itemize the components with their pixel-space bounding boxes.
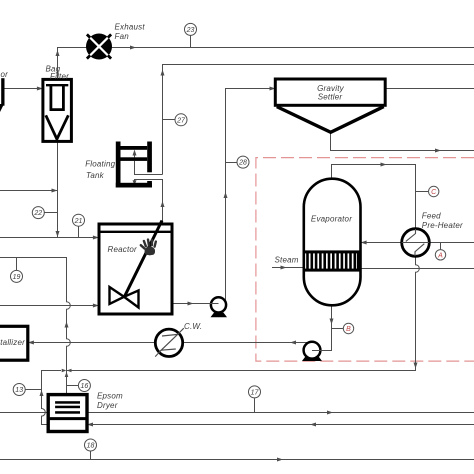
svg-text:Dryer: Dryer [97,401,118,410]
wire reactor feed upper [0,237,99,239]
svg-text:Evaporator: Evaporator [311,215,352,224]
arrow left on pump P2 discharge [290,341,296,345]
crystallizer [0,326,28,360]
bag filter [43,79,72,141]
stream circle 19 [11,270,23,282]
svg-text:27: 27 [176,117,186,124]
arrow left into crystallizer [28,341,34,345]
svg-text:Settler: Settler [318,93,343,102]
arrow right on bottom line [277,458,283,462]
arrow down into floating tank [133,180,137,185]
svg-text:18: 18 [87,443,95,450]
wire stem of stream 23 [190,36,192,48]
svg-text:28: 28 [238,160,247,167]
arrow down on evaporator bottoms [330,319,334,325]
wire stem of stream 28 [226,162,238,164]
wire reactor discharge to pump P1 [172,303,218,305]
wire steam inlet [272,267,304,269]
arrow right into reactor upper nozzle [93,236,99,240]
svg-text:16: 16 [81,383,89,390]
wire fan discharge to right edge [112,47,474,49]
svg-text:13: 13 [15,387,23,394]
svg-text:23: 23 [186,27,195,34]
exhaust fan [86,34,112,60]
stream circle 21 [73,214,85,226]
arrow right on left inflow [52,189,58,193]
svg-text:Pre-Heater: Pre-Heater [422,221,463,230]
svg-text:Reactor: Reactor [108,245,138,254]
svg-text:C.W.: C.W. [184,322,202,331]
wire settler overflow to right edge [385,88,474,90]
arrow up in float box [133,150,137,156]
stream circle 13 [13,384,25,396]
reactor [99,221,172,315]
wire pump P1 discharge to gravity settler [226,89,276,303]
wire stem of stream 17 [254,398,256,412]
wire stem of stream 27 [163,119,176,121]
stream circle 17 [249,386,261,398]
wire feed line from right edge through pre-heater to evaporator [361,242,474,244]
svg-text:Filter: Filter [50,72,69,81]
wire reactor feed lower [0,305,99,307]
svg-text:21: 21 [74,218,83,225]
svg-text:22: 22 [33,210,42,217]
arrow up on pump P1 riser [224,192,228,198]
wire evaporator vapor to feed pre-heater [332,165,416,229]
svg-text:Steam: Steam [275,256,299,265]
gravity settler [275,79,385,132]
wire bag filter bottoms down to reactor feed [57,142,59,238]
stream circle 18 [85,439,97,451]
wire stem of stream 13 [25,389,41,391]
wire settler underflow to right edge [331,133,474,151]
arrow right on steam inlet [281,266,287,270]
arrow left into junction from pre-heater line [67,369,72,373]
wire bottom line across page [0,459,474,461]
svg-text:Exhaust: Exhaust [115,23,146,32]
svg-text:17: 17 [251,390,260,397]
arrow up on floating tank vent riser [161,70,165,76]
wire stem of stream 16 [67,385,79,387]
node circle B [343,323,353,333]
wire dryer feed from left edge [0,412,48,414]
wire stem of stream 19 [16,258,18,271]
svg-text:B: B [346,326,351,333]
arrow left on dryer hot-air line [310,423,316,427]
svg-text:Tank: Tank [86,171,105,180]
arrow left into evaporator feed nozzle [361,241,367,245]
stream circle 27 [175,114,187,126]
C.W. cooler [155,328,184,356]
arrow right on dryer product line [327,411,333,415]
pump P2 [302,342,322,361]
wire float box arrow stem [134,151,136,158]
arrow right on reactor discharge [188,302,194,306]
svg-text:Fan: Fan [115,32,130,41]
node circle C [429,186,439,196]
arrow right on settler underflow [435,149,441,153]
feed pre-heater [402,229,430,257]
cut-off vessel at left edge [0,70,8,112]
wire stem of node C [416,191,429,193]
svg-text:Feed: Feed [422,212,441,221]
node circle A [435,250,445,260]
arrow right into junction from stream 13 [62,369,67,373]
wire stem of stream 21 [78,226,80,237]
wire stem of stream 22 [44,212,57,214]
evaporator [304,179,361,306]
svg-text:or: or [1,70,9,79]
svg-text:Crystallizer: Crystallizer [0,338,25,347]
wire stem of stream 18 [90,451,92,460]
arrow up on stream 19 riser [65,322,69,328]
wire reactor vapor to floating tank [135,180,163,223]
arrow right on evaporator vapor line [381,163,387,167]
wire floating tank to fan suction header [163,65,474,175]
agitator impeller [110,287,139,308]
arrow left into dryer hot-air nozzle [87,423,93,427]
stream circle 22 [32,207,44,219]
stream circle 23 [185,23,197,35]
wire junction to dryer top [66,371,68,395]
pump P1 [208,297,227,317]
wire floating tank gas riser internals [135,161,163,175]
arrow up on reactor vapor riser [161,201,165,207]
arrow fan discharge right [130,46,136,50]
svg-text:Epsom: Epsom [97,391,123,400]
stream circle 28 [237,156,249,168]
wire left inflow to bag filter drop line [0,190,58,192]
calandria heating section [304,250,361,271]
arrow up on stream 13 riser [40,390,44,396]
wire dryer hot air from right edge [87,424,474,426]
wire bag filter top to exhaust fan [58,48,89,80]
arrow right into bag filter [37,87,43,91]
floating tank [116,142,152,188]
wire pre-heater outlet down and left to junction [67,256,419,370]
arrow right into reactor lower nozzle [93,304,99,308]
epsom dryer [48,395,87,432]
arrow up from dryer into junction [65,372,69,377]
wire evaporator bottoms to pump P2 [312,305,332,350]
wire stem of node B [332,328,344,330]
wire dryer product to right edge [87,412,474,414]
arrow down on bag filter bottoms [56,231,60,237]
wire stream 13 dryer underflow up to junction [42,371,62,425]
wire steam condensate to right edge [361,268,474,270]
arrow down on pre-heater outlet [414,363,418,369]
motor hand mark [141,240,156,256]
stream circle 16 [78,380,90,392]
svg-text:19: 19 [13,274,21,281]
arrow into gravity settler [270,87,276,91]
wire stem of node A [440,243,442,250]
wire pump P2 discharge through cooler to crystallizer [28,342,310,344]
svg-text:A: A [437,252,443,259]
svg-text:Floating: Floating [85,160,115,169]
arrow up into fan suction corner [56,50,60,56]
red dashed battery-limit box [256,158,474,362]
wire cut-off vessel to bag filter [5,88,43,90]
wire stream 19 vent header with jumps [0,258,70,371]
